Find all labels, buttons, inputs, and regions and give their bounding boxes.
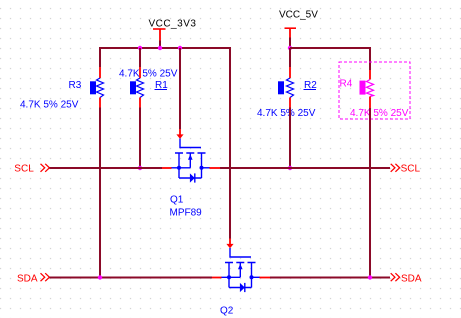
wire VCC_5V stem — [289, 38, 291, 49]
svg-text:SDA: SDA — [401, 274, 422, 285]
wire R3 branch upper — [99, 48, 101, 67]
Q1 bottom body line — [179, 177, 202, 179]
selection box around R4 — [339, 62, 410, 119]
Q1 source pin line — [171, 167, 190, 169]
Q1 pin stubs — [162, 167, 172, 169]
svg-text:VCC_5V: VCC_5V — [279, 10, 318, 21]
wire R3 to SDA — [99, 108, 101, 278]
power symbol VCC_3V3 — [149, 19, 197, 41]
Q1 drain pin line — [202, 167, 211, 169]
wire R4 branch upper — [369, 48, 371, 70]
Q1 drain leg — [201, 153, 203, 178]
svg-text:VCC_3V3: VCC_3V3 — [149, 19, 197, 30]
Q2 body diode — [240, 283, 245, 292]
Q1 source leg — [178, 153, 180, 178]
junction dot R4-SDA — [368, 275, 372, 279]
junction dot rail-Q1 gate — [178, 46, 182, 50]
svg-text:Q2: Q2 — [220, 306, 234, 317]
off-page connector SCL left — [14, 164, 49, 175]
svg-text:4.7K 5% 25V: 4.7K 5% 25V — [350, 108, 409, 119]
resistor R4 (selected) — [340, 70, 409, 119]
wire SCL right segment — [220, 167, 390, 169]
junction dot rail-VCC_3V3 — [158, 46, 162, 50]
svg-text:4.7K 5% 25V: 4.7K 5% 25V — [119, 69, 178, 80]
Q2 channel bars — [225, 262, 256, 264]
transistor Q1 — [162, 129, 220, 219]
off-page connector SDA left — [17, 273, 49, 284]
wire 5V rail — [290, 47, 371, 49]
Q2 source leg — [228, 263, 230, 288]
svg-text:SCL: SCL — [401, 164, 421, 175]
svg-text:R3: R3 — [69, 80, 82, 91]
junction dot rail-R1 — [138, 46, 142, 50]
resistor R1 — [119, 67, 178, 108]
Q1 gate arrow — [179, 129, 181, 135]
wire SDA left segment — [50, 277, 213, 279]
junction dot R1-SCL — [138, 166, 142, 170]
wire SDA right segment — [270, 277, 390, 279]
wire Q2 gate drop — [229, 48, 231, 239]
junction dot R2-SCL — [288, 166, 292, 170]
off-page connector SDA right — [391, 273, 422, 284]
svg-text:SCL: SCL — [14, 164, 34, 175]
Q1 channel bars — [175, 152, 206, 154]
svg-text:4.7K 5% 25V: 4.7K 5% 25V — [257, 108, 316, 119]
Q2 gate arrow — [229, 239, 231, 245]
wire R1 branch upper — [139, 48, 141, 67]
wire Q1 gate drop — [179, 48, 181, 129]
resistor R3 — [20, 67, 104, 111]
Q2 drain pin line — [252, 276, 261, 278]
Q2 drain leg — [251, 263, 253, 288]
junction dot R3-SDA — [98, 275, 102, 279]
junction dot VCC_5V rail — [288, 46, 292, 50]
Q1 gate lead — [180, 139, 201, 148]
svg-text:4.7K 5% 25V: 4.7K 5% 25V — [20, 100, 79, 111]
svg-text:R4: R4 — [340, 79, 353, 90]
Q2 gate lead — [230, 248, 251, 257]
Q1 bulk leg with arrow — [189, 153, 191, 168]
off-page connector SCL right — [391, 164, 421, 175]
wire R2 to SCL — [289, 108, 291, 169]
transistor Q2 — [212, 239, 270, 317]
wire R4 to SDA — [369, 108, 371, 278]
Q2 bulk leg with arrow — [239, 263, 241, 278]
wire R1 to SCL — [139, 108, 141, 169]
svg-text:SDA: SDA — [17, 274, 38, 285]
wire R2 branch upper — [289, 48, 291, 67]
power symbol VCC_5V — [279, 10, 318, 38]
wire 3V3 top rail — [99, 47, 231, 49]
Q2 bottom body line — [229, 287, 252, 289]
resistor R2 — [257, 67, 317, 119]
wire SCL left segment — [50, 167, 163, 169]
Q1 body diode — [190, 173, 195, 182]
Q2 pin stubs — [212, 277, 222, 279]
svg-text:Q1: Q1 — [170, 195, 184, 206]
svg-text:MPF89: MPF89 — [170, 208, 203, 219]
Q2 source pin line — [221, 276, 240, 278]
wire VCC_3V3 stem — [159, 41, 161, 49]
